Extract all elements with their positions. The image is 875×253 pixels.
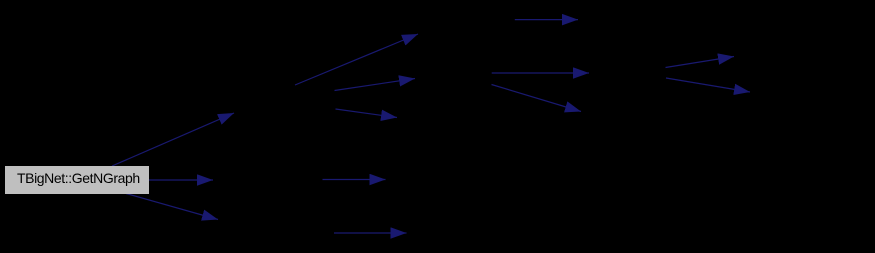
svg-text:TBigNet::GetNGraph: TBigNet::GetNGraph (17, 170, 140, 186)
